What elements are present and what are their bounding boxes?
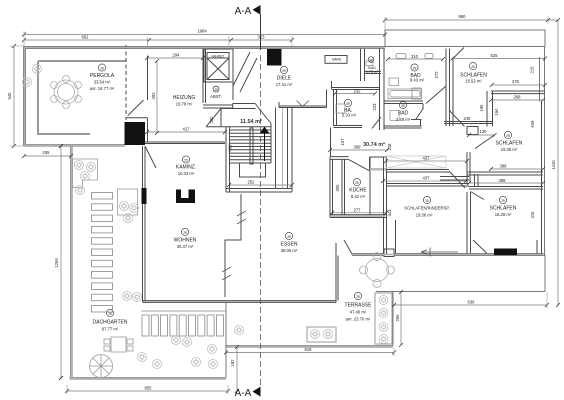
svg-text:SCHLAFEN: SCHLAFEN <box>490 206 517 212</box>
svg-text:29: 29 <box>108 312 112 316</box>
svg-text:30.74 m²: 30.74 m² <box>363 141 385 148</box>
svg-text:16.52 m²: 16.52 m² <box>465 79 482 84</box>
svg-text:SCHLAFEN: SCHLAFEN <box>496 141 523 147</box>
svg-text:417: 417 <box>183 127 191 132</box>
svg-text:29: 29 <box>282 69 286 73</box>
svg-text:398: 398 <box>499 178 507 183</box>
svg-text:490: 490 <box>228 144 233 152</box>
svg-text:636: 636 <box>468 300 476 305</box>
svg-text:268: 268 <box>514 95 522 100</box>
svg-text:8.42 m²: 8.42 m² <box>351 194 366 199</box>
svg-text:29: 29 <box>401 104 405 108</box>
svg-text:30.47 m²: 30.47 m² <box>177 244 194 249</box>
svg-text:FAHRST.: FAHRST. <box>211 55 224 59</box>
svg-text:294: 294 <box>173 53 181 58</box>
svg-text:WOHNEN: WOHNEN <box>174 238 197 244</box>
svg-text:272: 272 <box>434 71 439 79</box>
svg-text:860: 860 <box>459 14 467 19</box>
svg-text:1269: 1269 <box>54 258 59 268</box>
svg-text:29: 29 <box>184 159 188 163</box>
svg-text:416: 416 <box>530 211 535 219</box>
svg-text:194: 194 <box>494 108 499 116</box>
svg-text:1.75 m²: 1.75 m² <box>366 70 379 74</box>
svg-text:HEIZUNG: HEIZUNG <box>173 95 196 101</box>
svg-text:29: 29 <box>355 181 359 185</box>
svg-text:38.05 m²: 38.05 m² <box>281 248 298 253</box>
svg-text:DIELE: DIELE <box>277 76 292 82</box>
svg-text:29: 29 <box>471 65 475 69</box>
svg-text:323: 323 <box>258 35 266 40</box>
svg-text:228: 228 <box>387 143 392 151</box>
svg-text:649: 649 <box>530 120 535 128</box>
svg-text:252: 252 <box>248 180 256 185</box>
svg-text:29: 29 <box>100 67 104 71</box>
svg-text:anr. 23.70 m²: anr. 23.70 m² <box>346 317 371 322</box>
svg-text:300: 300 <box>335 184 340 192</box>
svg-text:277: 277 <box>354 207 362 212</box>
svg-text:KAMINZ.: KAMINZ. <box>176 165 196 171</box>
svg-text:ABST.: ABST. <box>210 94 222 99</box>
svg-text:DACHGARTEN: DACHGARTEN <box>93 320 128 326</box>
svg-text:33.54 m²: 33.54 m² <box>94 80 111 85</box>
svg-text:29: 29 <box>425 199 429 203</box>
svg-text:15.35 m²: 15.35 m² <box>501 147 518 152</box>
svg-text:10.33 m²: 10.33 m² <box>178 171 195 176</box>
svg-text:290: 290 <box>209 116 214 124</box>
svg-text:16.29 m²: 16.29 m² <box>495 212 512 217</box>
svg-text:232: 232 <box>354 89 362 94</box>
svg-text:11.54 m²: 11.54 m² <box>240 118 262 125</box>
svg-text:17.41 m²: 17.41 m² <box>276 82 293 87</box>
svg-text:16.78 m²: 16.78 m² <box>176 102 193 107</box>
svg-text:29: 29 <box>369 59 373 63</box>
svg-text:157: 157 <box>340 138 345 146</box>
svg-text:PERGOLA: PERGOLA <box>90 73 115 79</box>
svg-text:661: 661 <box>82 35 90 40</box>
svg-text:437: 437 <box>423 176 431 181</box>
svg-text:29: 29 <box>183 231 187 235</box>
svg-text:TERRASSE: TERRASSE <box>345 303 373 309</box>
svg-text:ESSEN: ESSEN <box>281 242 298 248</box>
svg-text:492: 492 <box>151 92 156 100</box>
svg-text:anr. 16.77 m²: anr. 16.77 m² <box>90 86 115 91</box>
svg-text:47.40 m²: 47.40 m² <box>350 310 367 315</box>
svg-text:1445: 1445 <box>551 160 556 170</box>
svg-text:182: 182 <box>230 359 235 367</box>
svg-text:255: 255 <box>43 150 51 155</box>
svg-text:265: 265 <box>395 314 400 322</box>
svg-text:215: 215 <box>530 66 535 74</box>
svg-text:BAD: BAD <box>398 111 409 117</box>
svg-text:A-A: A-A <box>235 6 252 17</box>
svg-text:276: 276 <box>512 79 520 84</box>
svg-text:310: 310 <box>411 54 419 59</box>
svg-text:29: 29 <box>356 295 360 299</box>
svg-text:855: 855 <box>145 386 153 391</box>
svg-text:67.77 m²: 67.77 m² <box>102 327 119 332</box>
svg-text:398: 398 <box>500 164 508 169</box>
svg-text:29: 29 <box>506 134 510 138</box>
svg-text:196: 196 <box>479 104 484 112</box>
svg-text:19.36 m²: 19.36 m² <box>416 213 433 218</box>
svg-text:223: 223 <box>372 103 377 111</box>
svg-text:2.48 m²: 2.48 m² <box>396 117 411 122</box>
svg-text:29: 29 <box>346 102 350 106</box>
svg-text:130: 130 <box>480 129 488 134</box>
svg-text:29: 29 <box>214 88 218 92</box>
svg-text:SCHLAFEN/KINDERSP.: SCHLAFEN/KINDERSP. <box>404 206 450 211</box>
svg-text:GARD.: GARD. <box>332 58 342 62</box>
svg-text:8.43 m²: 8.43 m² <box>410 78 425 83</box>
svg-text:309: 309 <box>354 145 362 150</box>
svg-text:29: 29 <box>501 199 505 203</box>
svg-text:443: 443 <box>387 209 392 217</box>
svg-text:29: 29 <box>287 235 291 239</box>
svg-text:918: 918 <box>305 347 313 352</box>
svg-text:540: 540 <box>7 92 12 100</box>
svg-text:29: 29 <box>413 67 417 71</box>
svg-text:A-A: A-A <box>235 388 252 399</box>
svg-text:525: 525 <box>491 53 499 58</box>
svg-text:249: 249 <box>464 116 472 121</box>
svg-text:KÜCHE: KÜCHE <box>349 187 367 194</box>
svg-text:1984: 1984 <box>197 29 207 34</box>
